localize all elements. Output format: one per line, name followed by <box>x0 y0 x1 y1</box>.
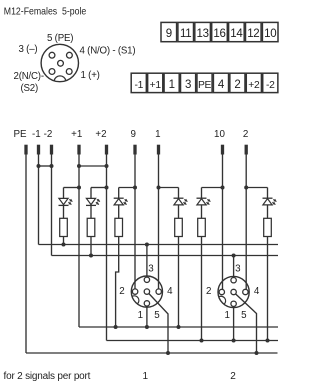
svg-text:+1: +1 <box>71 129 82 140</box>
svg-text:1: 1 <box>169 79 175 91</box>
svg-text:(S2): (S2) <box>21 83 39 94</box>
svg-text:4: 4 <box>254 286 260 297</box>
svg-text:-2: -2 <box>44 129 53 140</box>
svg-text:+2: +2 <box>248 80 260 91</box>
svg-text:3: 3 <box>185 79 191 91</box>
svg-text:2(N/C)-: 2(N/C)- <box>14 71 44 82</box>
svg-text:for 2 signals per port: for 2 signals per port <box>4 371 91 382</box>
svg-text:PE: PE <box>13 129 27 140</box>
LED V3 branch (signal 9) <box>119 187 135 189</box>
svg-text:16: 16 <box>213 28 225 40</box>
svg-text:+1: +1 <box>150 80 162 91</box>
wire port2 pin5 to PE bus <box>235 294 256 353</box>
svg-text:1: 1 <box>143 371 149 382</box>
svg-text:13: 13 <box>196 28 208 40</box>
svg-text:4 (N/O) - (S1): 4 (N/O) - (S1) <box>80 46 136 57</box>
LED V6 branch (signal 2) <box>246 187 267 189</box>
wire +2 column <box>106 154 108 341</box>
bus -1 <box>39 244 279 246</box>
wire -1 column <box>38 154 40 245</box>
svg-text:2: 2 <box>119 286 124 297</box>
wire signal 1 column to port1 pin4 <box>158 154 160 289</box>
resistor R3 <box>115 218 123 236</box>
wire port2 pin1 to +2 bus <box>233 306 235 340</box>
wire signal 10 column to port2 pin2 <box>222 154 224 289</box>
bus +1 <box>79 326 278 328</box>
LED V4 branch (signal 1) <box>159 187 179 189</box>
svg-text:1: 1 <box>155 129 160 140</box>
wire port1 pin3 from -1 bus <box>146 245 148 278</box>
svg-text:10: 10 <box>214 129 225 140</box>
wire PE column <box>25 154 27 353</box>
LED V1 branch (power +1) <box>64 187 80 189</box>
terminal strip row: 9 11 13 16 14 12 10 <box>161 22 177 41</box>
svg-text:3: 3 <box>148 264 154 275</box>
terminal end marks <box>24 145 27 155</box>
bus +2 <box>107 340 279 342</box>
svg-text:4: 4 <box>218 79 225 91</box>
svg-text:2: 2 <box>206 286 211 297</box>
svg-text:11: 11 <box>180 28 191 40</box>
bridge +1 to +2 <box>79 165 107 167</box>
svg-text:5 (PE): 5 (PE) <box>47 33 73 44</box>
wire -2 column <box>51 154 53 256</box>
resistor R5 <box>198 218 206 236</box>
svg-text:2: 2 <box>234 79 240 91</box>
svg-text:10: 10 <box>264 28 276 40</box>
wire signal 9 column to port1 pin2 <box>134 154 136 289</box>
svg-text:5: 5 <box>154 310 160 321</box>
port 1 connector <box>131 276 162 307</box>
resistor R1 <box>60 218 68 236</box>
svg-text:M12-Females 5-pole: M12-Females 5-pole <box>4 6 87 18</box>
svg-text:1: 1 <box>224 310 229 321</box>
resistor R2 <box>87 218 95 236</box>
svg-text:-1: -1 <box>32 129 41 140</box>
port 2 connector <box>218 276 249 307</box>
wire port1 pin5 to PE bus <box>149 293 168 353</box>
svg-text:9: 9 <box>130 129 135 140</box>
svg-text:4: 4 <box>167 286 173 297</box>
bridge -1 to -2 <box>39 165 52 167</box>
svg-text:2: 2 <box>230 371 236 382</box>
LED V5 branch (signal 10) <box>202 187 223 189</box>
svg-text:PE: PE <box>198 80 212 91</box>
svg-text:-2: -2 <box>266 80 275 91</box>
svg-text:1 (+): 1 (+) <box>81 70 100 81</box>
svg-text:3 (–): 3 (–) <box>19 44 38 55</box>
bus -2 <box>52 255 279 257</box>
svg-text:12: 12 <box>247 28 259 40</box>
svg-text:14: 14 <box>230 28 243 40</box>
svg-text:-1: -1 <box>134 80 143 91</box>
bus PE <box>26 352 278 354</box>
wire signal 2 column to port2 pin4 <box>245 154 247 289</box>
svg-text:9: 9 <box>166 28 172 40</box>
svg-text:5: 5 <box>241 310 247 321</box>
wire +1 column <box>78 154 80 327</box>
resistor R6 <box>264 218 272 236</box>
terminal strip row: -1 +1 1 3 PE 4 2 +2 -2 <box>131 73 146 92</box>
svg-text:3: 3 <box>235 264 241 275</box>
LED V2 branch (power +2) <box>91 187 107 189</box>
wire port2 pin3 from -2 bus <box>233 256 235 278</box>
svg-text:+2: +2 <box>95 129 106 140</box>
svg-text:1: 1 <box>138 310 143 321</box>
svg-text:2: 2 <box>243 129 248 140</box>
resistor R4 <box>175 218 183 236</box>
connector face view M12 female 5-pole <box>41 44 78 81</box>
wire port1 pin1 to +1 bus <box>146 306 148 327</box>
